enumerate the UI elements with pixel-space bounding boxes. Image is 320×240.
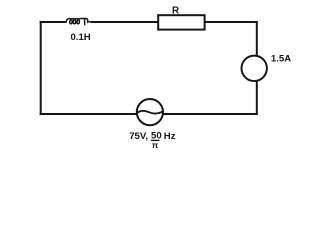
svg-text:75V,: 75V,: [129, 131, 148, 142]
svg-text:R: R: [172, 6, 179, 17]
wire top: [40, 21, 258, 23]
resistor R: [158, 15, 204, 29]
wire bottom: [40, 113, 258, 115]
svg-text:Hz: Hz: [164, 131, 176, 142]
source label 75V, 50/pi Hz: [129, 131, 176, 150]
svg-text:0.1H: 0.1H: [70, 32, 90, 43]
svg-text:π: π: [152, 140, 159, 150]
svg-text:1.5A: 1.5A: [271, 54, 291, 65]
AC voltage source: [136, 99, 163, 125]
inductor L1 0.1H: [66, 18, 91, 24]
wire left: [40, 21, 42, 115]
wire right: [256, 21, 258, 115]
current source / ammeter 1.5A: [242, 56, 267, 81]
